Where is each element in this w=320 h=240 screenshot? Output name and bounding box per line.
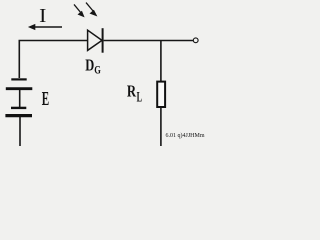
photodiode D_G: triangle <box>88 30 102 50</box>
svg-text:L: L <box>137 90 143 106</box>
battery E: cell 1 short plate <box>11 78 26 80</box>
battery E: cell 1 long thick plate <box>6 87 33 90</box>
resistor R_L (box) <box>157 82 165 107</box>
wire junction down to resistor top <box>160 41 162 83</box>
wire top-left segment (battery top to diode anode) <box>19 41 87 79</box>
photodiode D_G: cathode bar <box>102 28 104 53</box>
wire battery bottom to image bottom <box>19 117 21 146</box>
battery E: cell 2 long thick plate <box>5 114 32 117</box>
light arrow 2 (right) <box>86 3 97 17</box>
output terminal (open circle) <box>193 38 198 43</box>
light arrow 1 (left) <box>74 4 85 17</box>
wire resistor bottom to image bottom <box>160 107 162 146</box>
battery inner connector wire <box>19 90 21 107</box>
battery E: cell 2 short plate <box>11 107 26 109</box>
svg-text:I: I <box>39 5 46 27</box>
svg-text:6.01 q)4JJHMm: 6.01 q)4JJHMm <box>166 132 205 139</box>
svg-text:R: R <box>127 82 137 101</box>
current direction arrow <box>28 24 62 30</box>
wire diode cathode to output terminal <box>104 40 193 42</box>
svg-text:E: E <box>42 89 49 110</box>
svg-text:D: D <box>85 56 94 75</box>
svg-text:G: G <box>94 63 101 77</box>
